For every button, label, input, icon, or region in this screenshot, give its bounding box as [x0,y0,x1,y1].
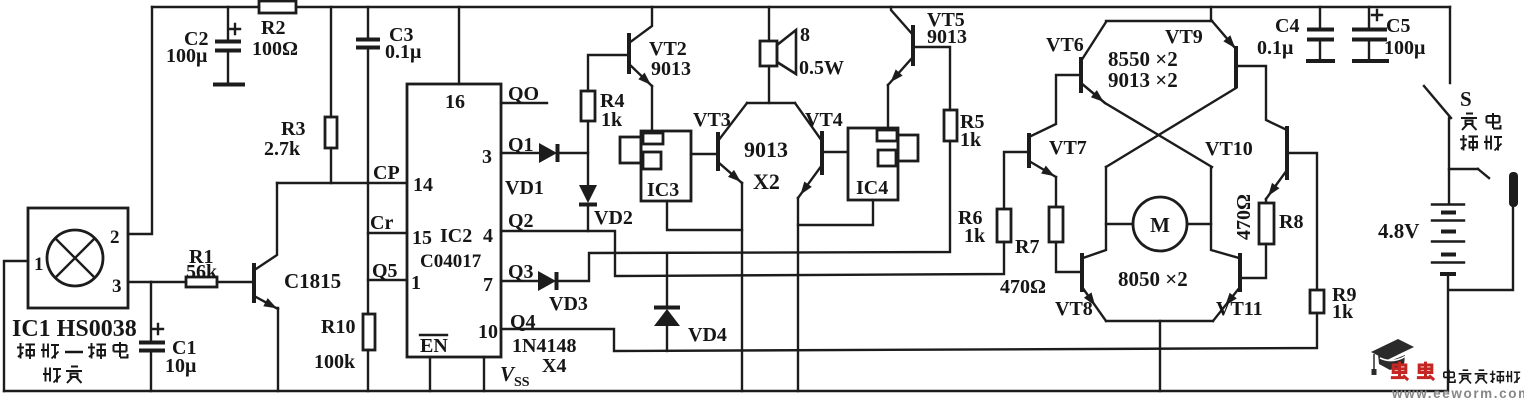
wire: bridge bottom line [1106,320,1213,322]
diode VD4 vertical anode-down [654,306,680,310]
svg-text:VD4: VD4 [688,324,727,346]
wire: bridge top line stub to rail [1210,7,1212,21]
watermark graduation cap [1371,339,1414,360]
chinese: cha kong (socket) [1460,135,1502,151]
wire: IC2 pin16 to rail [458,7,460,84]
wire: motor left lead [1106,223,1133,225]
wire: VT5 collector to rail [891,7,913,35]
transistor VT9 emitter arrow on top diagonal [1223,35,1235,48]
svg-text:3: 3 [482,146,492,168]
svg-text:9013: 9013 [651,58,691,80]
transistor VT5 emitter arrow [888,57,913,85]
IC3 inner pad top [643,133,663,144]
battery cell 3 short plate [1441,253,1456,257]
svg-text:QO: QO [508,83,539,105]
transistor VT5 base bar [911,25,915,66]
wire: VT9 emitter diagonal from top line [1212,21,1236,49]
svg-text:CP: CP [373,162,400,184]
IC1 photodetector circle [47,230,103,286]
svg-text:8: 8 [800,24,810,46]
IC1 HS0038 receiver box [28,208,128,308]
wire: +V top rail left section [152,6,259,8]
node: junction pin3/C1 [150,281,152,283]
svg-text:10μ: 10μ [165,355,197,377]
svg-text:1k: 1k [960,129,982,151]
svg-text:0.5W: 0.5W [799,57,844,79]
wire: IC4 bottom lead to VT4 emitter line [798,200,873,225]
svg-text:EN: EN [420,335,448,357]
wire: C1815 collector vertical [256,183,277,269]
svg-text:2: 2 [110,227,120,248]
capacitor C5 100u polarized [1352,30,1387,40]
svg-text:Q1: Q1 [508,134,534,156]
svg-text:IC3: IC3 [647,179,679,201]
battery 4.8V cell 1 long plate [1432,203,1464,205]
wire: speaker top lead to rail [768,7,770,41]
battery cell 2 long plate [1432,219,1464,221]
resistor R6 1k [997,209,1011,242]
transistor C1815 base bar [252,263,256,303]
wire: ground bottom rail [4,390,1447,392]
wire: jack sleeve to battery negative [1449,207,1513,290]
wire: EN pin stub to ground [429,357,431,391]
plus sign of C5 [1372,10,1382,20]
svg-text:R2: R2 [261,17,285,39]
svg-text:9013: 9013 [927,26,967,48]
svg-text:100μ: 100μ [166,45,208,67]
jack sleeve contact bar [1509,172,1518,207]
transistor VT11 base bar [1238,253,1242,292]
wire: R4 top lead to VT2 base [588,55,629,91]
svg-text:14: 14 [413,174,433,196]
wire: Q4 pin10 bus to R9 bottom [501,313,1317,351]
wire: VT9 collector cross diagonal to motor left [1106,88,1236,167]
battery cell 2 short plate [1441,230,1456,234]
battery cell 1 short plate [1441,211,1456,215]
wire: battery bottom lead to ground rail [1447,276,1449,391]
IC4 music chip box [848,128,898,200]
svg-text:VT3: VT3 [693,109,731,131]
wire: R6 top to VT7 base [1004,152,1029,209]
wire: VT7 emitter to R7 top [1055,177,1057,207]
wire: VT10 emitter to R8 top [1265,199,1267,203]
ground bar of C4 [1306,59,1335,63]
svg-text:VT6: VT6 [1046,34,1084,56]
svg-text:10: 10 [478,321,498,343]
svg-text:1k: 1k [964,225,986,247]
svg-text:R3: R3 [281,118,305,140]
svg-text:M: M [1150,213,1170,237]
resistor R2 100ohm in rail [259,1,296,13]
wire: VD2 cathode to Q2 wire [587,206,589,231]
svg-text:VD1: VD1 [505,177,544,199]
wire: VD4 bottom lead to Q4 bus [666,326,668,351]
wire: VT3 collector up to speaker line [718,103,747,141]
transistor VT3 emitter arrow [718,162,742,183]
watermark site name characters dianzi xiazaizhan [1444,370,1520,384]
wire: jack branch [1449,168,1478,170]
wire: rail right corner down to switch S [1449,7,1451,83]
wire: VD3 cathode, Q3 bus to R5 bottom [556,141,950,281]
wire: VT8 emitter diagonal to bridge bottom [1082,287,1106,321]
svg-text:1: 1 [411,272,421,294]
wire: R7 bottom to VT8 base [1056,242,1082,272]
svg-text:8050 ×2: 8050 ×2 [1118,267,1188,291]
svg-text:470Ω: 470Ω [1000,276,1046,298]
wire: motor right vertical [1211,167,1239,258]
IC3 outer pad left [620,137,641,163]
capacitor C3 0.1u [356,40,380,48]
svg-text:VT8: VT8 [1055,298,1093,320]
svg-text:C1815: C1815 [284,269,341,293]
svg-text:100Ω: 100Ω [252,38,298,60]
svg-text:4: 4 [483,225,493,247]
chinese: chong dian (charging) [1461,113,1501,130]
svg-text:VT10: VT10 [1205,138,1253,160]
motor M circle [1133,197,1187,251]
svg-text:56k: 56k [186,261,218,283]
battery cell 4 short plate [1440,272,1456,276]
wire: speaker bottom lead [768,66,770,103]
svg-text:Q4: Q4 [510,311,536,333]
transistor VT8 emitter arrow [1084,292,1095,305]
transistor VT10 base bar [1285,126,1289,180]
transistor VT8 base bar [1080,253,1084,292]
wire: Cr pin15 to reset node [368,232,407,234]
svg-text:R8: R8 [1279,211,1303,233]
wire: VT4 collector diagonal [795,103,822,141]
wire: R8 bottom to VT11 base [1240,244,1266,278]
transistor VT11 emitter arrow [1225,293,1237,306]
svg-text:VD3: VD3 [549,293,588,315]
wire: C3 bottom to reset node, R10, ground [367,49,369,391]
wire: VD4 top lead from Q3 bus [666,253,668,305]
svg-text:9013 ×2: 9013 ×2 [1108,68,1178,92]
svg-text:1: 1 [34,254,44,275]
IC3 inner pad mid [643,152,661,169]
wire: CP wire from C1815 collector to IC2 pin14 [277,182,407,184]
svg-text:IC2: IC2 [440,225,472,247]
ground bar of C5 [1352,59,1389,63]
svg-text:R7: R7 [1015,236,1039,258]
svg-text:Q2: Q2 [508,210,534,232]
battery cell 3 long plate [1432,240,1464,242]
svg-text:4.8V: 4.8V [1378,219,1419,243]
svg-text:1N4148: 1N4148 [512,335,576,357]
svg-text:15: 15 [412,227,432,249]
svg-text:C4: C4 [1275,15,1299,37]
svg-text:7: 7 [483,274,493,296]
speaker 8ohm 0.5W [760,41,777,66]
svg-text:VT9: VT9 [1165,26,1203,48]
svg-text:X4: X4 [542,355,566,377]
svg-text:IC4: IC4 [856,177,888,199]
wire: VT6 collector to bridge top line [1081,22,1106,61]
transistor VT2 base bar [627,33,631,74]
wire: motor right lead [1187,223,1211,225]
IC3 music chip box [641,131,691,201]
wire: R3 leads [330,7,332,183]
watermark red chongchong characters [1391,362,1434,380]
wire: bridge bottom center tap to ground [1159,321,1161,391]
wire: IC1 pin3 to R1 and C1815 base [128,281,252,283]
resistor R5 1k [944,110,957,141]
IC4 inner pad mid [878,150,896,166]
capacitor C1 10u polarized [139,343,165,351]
wire: C1815 emitter to ground [277,308,279,391]
resistor R7 470ohm [1049,207,1063,242]
resistor R4 1k [581,91,595,121]
switch S blade [1424,86,1451,118]
resistor R9 1k [1310,290,1324,313]
svg-text:1k: 1k [601,109,623,131]
wire: IC1 pin2 to rail [128,7,152,234]
wire: VT9 base to VT10 collector [1236,66,1287,130]
WATERMARK [1371,339,1524,399]
transistor VT6 emitter arrow [1081,83,1105,103]
chinese caption line2: shou tou [43,367,82,384]
resistor R1 56k [186,277,217,287]
svg-text:100μ: 100μ [1384,37,1426,59]
svg-text:www.eeworm.com: www.eeworm.com [1391,386,1524,399]
transistor C1815 emitter with arrow [256,297,278,309]
transistor VT9 base bar [1234,46,1238,88]
svg-text:Cr: Cr [370,212,393,234]
capacitor C4 0.1u [1307,30,1334,40]
svg-text:S: S [1460,87,1472,111]
diode VD2 vertical [579,185,597,203]
svg-text:Q3: Q3 [508,261,534,283]
resistor R3 2.7k [325,117,337,148]
plus sign of C2 [230,24,240,34]
IC1 detector X diagonals [56,239,95,278]
IC4 outer pad right [898,135,918,161]
wire: +V top rail right section [296,6,1450,8]
wire: IC3 output to VT3 base [691,153,718,155]
IC4 inner pad top [877,130,897,141]
wire: C2 leads [227,7,229,82]
wire: Q0 stub [501,102,547,104]
resistor R8 470ohm [1259,203,1274,244]
wire: VT5 base to R5 top [913,47,950,110]
wire: C5 leads [1368,7,1370,58]
wire: C3 lead from rail [367,7,369,38]
svg-text:0.1μ: 0.1μ [1257,37,1294,59]
battery cell 4 long plate [1432,261,1464,263]
svg-text:R10: R10 [321,316,355,338]
transistor VT6 base bar [1079,57,1083,93]
wire: C4 leads [1319,7,1321,58]
wire: bridge top line [1106,20,1212,22]
wire: VT5 emitter to IC4 top [887,85,889,128]
resistor R10 100k [363,314,375,350]
wire: speaker bottom line VT3-VT4 collectors [747,102,795,104]
svg-text:VD2: VD2 [594,207,633,229]
wire: VT11 emitter diagonal to bridge bottom [1213,287,1240,321]
capacitor C2 100u polarized [215,42,241,51]
chinese caption line1: hong wai yi ti jie [17,342,128,359]
svg-text:SS: SS [514,375,530,390]
svg-text:9013: 9013 [744,137,788,162]
wire: VT2 collector to rail [629,7,652,43]
svg-text:0.1μ: 0.1μ [385,41,422,63]
svg-text:X2: X2 [753,169,780,194]
wire: C1 leads [150,282,152,391]
watermark cap tassel [1373,354,1375,369]
svg-text:VT7: VT7 [1049,137,1087,159]
wire: VT6 emitter cross diagonal to motor right [1081,83,1212,167]
diode VD3 [538,271,556,291]
plus sign of C1 [153,324,163,334]
transistor VT4 base bar [820,131,824,175]
svg-text:1k: 1k [1332,301,1354,323]
wire: Vss pin stub to ground [483,357,485,391]
ground bar of C2 [213,83,245,87]
svg-text:3: 3 [112,276,122,297]
svg-text:Q5: Q5 [372,260,398,282]
transistor VT4 emitter arrow [798,165,822,198]
wire: jack hook contact [1478,169,1489,178]
wire: IC3 bottom lead to VT3 emitter line [667,201,742,230]
svg-text:100k: 100k [314,351,356,373]
svg-text:VT2: VT2 [649,38,687,60]
svg-text:VT4: VT4 [805,109,843,131]
wire: VT7 collector to VT6 base [1029,75,1081,137]
wire: Q3 pin7 to VD3 [501,280,538,282]
wire: IC1 pin1 to ground rail [4,261,28,391]
transistor VT10 emitter arrow [1266,170,1287,199]
transistor VT7 emitter arrow [1029,161,1056,177]
svg-text:C5: C5 [1386,15,1410,37]
wire: Q2 pin4 bus to R6 bottom [501,231,1004,276]
wire: Q1 pin3 to VD1 [501,152,539,154]
wire: VT3 emitter to ground [741,183,743,391]
wire: VT10 base to R9 top [1287,153,1317,290]
wire: VT2 emitter to IC3 top [651,86,653,131]
transistor VT2 emitter arrow [629,64,652,86]
transistor VT7 base bar [1027,133,1031,168]
svg-text:C04017: C04017 [420,251,482,272]
wire: VD1 cathode to R4 node [557,152,588,154]
svg-text:2.7k: 2.7k [264,138,301,160]
wire: Q5 pin1 to reset node [368,279,407,281]
wire: motor left vertical [1083,167,1106,258]
wire: switch lower terminal down to jack corner and battery [1448,118,1450,203]
transistor VT3 base bar [716,132,720,171]
wire: R4 bottom to Q1 node to VD2 [587,121,589,184]
diode VD1 [539,143,557,163]
svg-text:IC1 HS0038: IC1 HS0038 [12,316,137,342]
IC2 C04017 box [407,84,501,357]
svg-text:16: 16 [445,91,465,113]
svg-text:470Ω: 470Ω [1233,194,1255,240]
wire: VT4 emitter to ground [797,198,799,391]
wire: VT4 base to IC4 [822,151,848,153]
svg-text:VT11: VT11 [1216,298,1263,320]
